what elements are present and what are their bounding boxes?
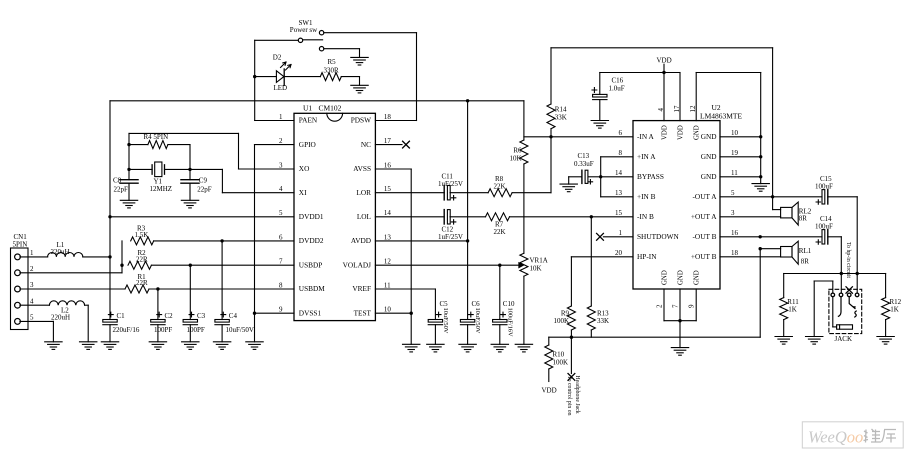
svg-text:AVSS: AVSS [353,164,371,173]
label CN1 5PIN [13,233,28,248]
svg-text:GPIO: GPIO [299,140,316,149]
annotation To hp-in circuit (rotated) [845,242,851,278]
wire L2 to ground [85,305,89,342]
wire +INA/BYPASS/+INB bracket [599,157,633,197]
svg-text:CM102: CM102 [319,104,342,113]
ground VR1A [515,344,532,352]
svg-text:14: 14 [384,209,392,217]
svg-text:VOLADJ: VOLADJ [343,260,372,269]
svg-text:10uF/50V: 10uF/50V [474,308,481,334]
svg-text:22K: 22K [494,183,506,191]
ground R5 [351,85,368,93]
svg-text:3: 3 [30,281,34,289]
svg-text:220uH: 220uH [51,248,70,256]
svg-text:DVSS1: DVSS1 [299,308,322,317]
ground C16 [591,121,608,129]
switch SW1 Power sw [290,19,324,51]
svg-text:GND: GND [701,132,717,141]
svg-text:R9: R9 [561,309,570,317]
svg-text:To hp-in circuit: To hp-in circuit [845,242,851,278]
ground R11 [775,337,792,345]
U2 top pin names VDD VDD GND (rotated) [662,125,701,140]
capacitor C14 100uF [815,215,833,244]
U2 left pin numbers [615,129,623,257]
svg-text:22pF: 22pF [197,186,212,194]
capacitor C3 100PF [183,265,206,342]
wire XO top path [127,133,294,169]
wire SW1 lower contact to ground [324,49,360,58]
ground C6 [459,344,476,352]
pin 17 NC stub with X [375,141,409,148]
wire C15 to jack [828,197,859,293]
svg-text:15: 15 [384,185,392,193]
resistor R11 1K [780,274,800,337]
svg-text:R6: R6 [513,147,522,155]
wire CN1 pin5 to ground [20,321,54,341]
resistor R7 22K [486,213,510,236]
wire R3 to DVDD2 [154,239,294,242]
svg-text:VDD: VDD [657,57,672,65]
svg-text:R5: R5 [328,58,337,66]
svg-text:LED: LED [274,84,288,92]
svg-text:GND: GND [662,270,669,285]
VDD symbol R10 [542,387,557,395]
capacitor C11 1uF/25V [438,173,463,200]
svg-text:16: 16 [384,161,392,169]
svg-text:17: 17 [384,137,392,145]
svg-text:XI: XI [299,188,307,197]
watermark WeeQoo [802,422,903,448]
svg-text:5: 5 [30,314,34,322]
resistor R14 33K [547,48,567,139]
wire VOLADJ to VR1A wiper [375,263,523,268]
svg-text:VDD: VDD [662,125,669,140]
svg-text:220uH: 220uH [51,314,70,322]
potentiometer VR1A 10K [520,164,548,344]
svg-text:12MHZ: 12MHZ [150,185,173,193]
svg-text:8: 8 [619,149,623,157]
wire R8 up to -INA node [512,137,551,193]
svg-text:10: 10 [731,129,739,137]
capacitor C13 0.33uF [569,152,601,184]
wire CN1 pin3 to R1 [20,288,125,290]
svg-text:C2: C2 [165,312,174,320]
svg-text:20: 20 [615,249,623,257]
svg-text:11: 11 [731,169,738,177]
svg-text:5: 5 [279,209,283,217]
capacitor C12 1uF/25V [438,210,463,242]
U1 left pin names [299,116,325,318]
svg-text:LOR: LOR [356,188,371,197]
resistor R13 33K [587,217,609,337]
svg-text:LM4863MTE: LM4863MTE [700,111,743,120]
svg-text:5PIN: 5PIN [13,240,28,248]
ground CN1 pin5 [45,342,62,350]
ground DVSS1 [246,342,263,350]
svg-text:100uF: 100uF [815,183,833,191]
svg-text:To control pin on: To control pin on [566,376,572,416]
svg-text:DVDD2: DVDD2 [299,236,324,245]
wire GPIO down to DVSS1 and ground [253,145,294,342]
VDD symbol [657,57,672,73]
resistor R10 100K pull-up [545,337,572,381]
connector CN1 5PIN [11,248,29,330]
power rail VDD to pins 4 17 [600,71,680,121]
svg-text:XO: XO [299,164,310,173]
ground C10 [491,344,508,352]
svg-text:TEST: TEST [354,308,372,317]
svg-text:8R: 8R [801,257,810,265]
svg-text:100uF/16V: 100uF/16V [506,308,513,338]
svg-text:D2: D2 [273,54,282,62]
svg-text:1.0uF: 1.0uF [609,84,625,92]
wire SW1 top contact to PDSW [324,33,417,121]
svg-text:330R: 330R [324,66,340,74]
svg-text:220uF/16: 220uF/16 [113,326,140,334]
pin 1 SHUTDOWN stub with X [597,233,633,240]
resistor R12 1K [882,274,902,337]
wire AVDD to C6 [375,239,469,242]
wire DVDD1 to 5V rail [110,216,294,218]
svg-text:7: 7 [672,304,680,308]
wire -INA net [524,136,633,138]
wire LOR to C11 [375,192,444,194]
capacitor C2 100PF [151,289,173,342]
svg-text:C1: C1 [117,312,126,320]
U2 left pin names [637,132,679,261]
resistor R2 22R [128,249,151,269]
svg-text:6: 6 [279,233,283,241]
wire CN1 pin1 to L1 [20,256,48,258]
headphone jack JACK [829,287,862,343]
svg-text:0.33uF: 0.33uF [574,160,594,168]
wire SW1 pole to PAEN/LED [253,40,298,120]
ground rail pins 12 and 10/19/11 [696,73,762,184]
crystal Y1 12MHZ [127,145,191,193]
svg-text:8: 8 [279,281,283,289]
svg-text:3: 3 [731,209,735,217]
svg-text:16: 16 [731,229,739,237]
svg-text:1: 1 [619,229,623,237]
U1 right pin names [343,116,372,318]
op-amp U2 LM4863MTE [633,103,743,289]
resistor R9 100K [553,306,575,339]
U1 left pin numbers [279,113,283,314]
wire C11 to R8 [450,192,488,194]
wire jack sleeve to ground [814,281,833,337]
svg-text:2: 2 [30,265,34,273]
svg-text:7: 7 [279,258,283,266]
svg-text:4: 4 [279,185,283,193]
svg-text:RL1: RL1 [799,247,812,255]
U2 right pin numbers [731,129,739,257]
svg-text:R4 5PIN: R4 5PIN [144,133,169,141]
capacitor C10 100uF/16V [493,265,515,344]
svg-text:NC: NC [361,140,371,149]
resistor R5 330R [320,58,341,81]
svg-text:R10: R10 [553,351,565,359]
svg-text:11: 11 [384,281,391,289]
wire LOL to C12 [375,216,444,218]
wire CN1 pin2 to R2/R3 node [20,241,124,273]
svg-text:PAEN: PAEN [299,116,318,125]
svg-text:10uF/50V: 10uF/50V [226,326,254,334]
U2 bottom pin numbers 2 7 9 (rotated) [656,304,696,308]
svg-text:15: 15 [615,209,623,217]
svg-text:-IN B: -IN B [637,212,654,221]
svg-text:4: 4 [30,297,34,305]
svg-text:R13: R13 [597,309,609,317]
svg-text:19: 19 [731,149,739,157]
svg-text:GND: GND [694,270,701,285]
svg-text:10: 10 [384,306,392,314]
svg-text:22R: 22R [136,255,148,263]
wire load rail [784,273,886,275]
op-amp U1 CM102 [294,104,375,321]
svg-text:100PF: 100PF [154,326,172,334]
svg-text:LOL: LOL [357,212,372,221]
svg-text:33K: 33K [555,114,567,122]
svg-text:R14: R14 [555,105,567,113]
svg-text:22pF: 22pF [114,186,129,194]
capacitor C16 1.0uF [592,73,625,121]
svg-text:HP-IN: HP-IN [637,252,657,261]
svg-text:VREF: VREF [352,284,371,293]
U2 top pin numbers 4 17 12 (rotated) [657,105,697,113]
capacitor C9 22pF [181,169,212,200]
resistor R8 22K [488,175,512,197]
wire U2 bottom GND pins to ground [664,289,696,348]
capacitor C4 10uF/50V [215,241,254,342]
svg-text:GND: GND [678,270,685,285]
capacitor C8 22pF [113,169,138,200]
svg-text:100K: 100K [553,317,569,325]
svg-text:22R: 22R [136,279,148,287]
wire top feedback rail [551,48,774,210]
svg-text:SHUTDOWN: SHUTDOWN [637,232,679,241]
resistor R1 22R [125,273,149,293]
svg-text:+OUT A: +OUT A [691,212,717,221]
inductor L2 [49,301,84,322]
svg-text:1: 1 [30,249,34,257]
svg-text:VDD: VDD [678,125,685,140]
svg-text:Power sw: Power sw [290,26,318,34]
svg-text:PDSW: PDSW [351,116,371,125]
wire LED to R5 [284,76,320,78]
wire L1 to C1 node [83,255,112,258]
svg-text:12: 12 [384,258,392,266]
svg-text:14: 14 [615,169,623,177]
svg-text:10K: 10K [509,154,521,162]
wire headphone-jack control stub with X [566,337,580,415]
U2 right pin names [691,132,717,261]
wire -INB stub [591,216,633,218]
svg-text:9: 9 [279,306,283,314]
svg-text:100uF: 100uF [815,223,833,231]
ground U2 [671,348,688,356]
svg-text:U1: U1 [303,104,312,113]
wire bottom feedback to -OUTB [571,235,762,337]
wire R5 to ground [341,77,359,86]
wire R7 to -INB node [510,215,594,218]
capacitor C1 220uF/16 [103,312,140,342]
svg-text:+OUT B: +OUT B [691,252,717,261]
svg-text:AVDD: AVDD [351,236,371,245]
svg-text:GND: GND [701,152,717,161]
svg-text:-IN A: -IN A [637,132,655,141]
svg-text:13: 13 [384,233,392,241]
svg-text:-OUT A: -OUT A [693,192,718,201]
svg-text:C16: C16 [612,76,624,84]
ground C9 [181,200,198,208]
ground C8 [120,200,137,208]
svg-text:5: 5 [731,189,735,197]
svg-text:BYPASS: BYPASS [637,172,664,181]
wire R4 right to crystal right node [168,145,190,170]
svg-text:+IN B: +IN B [637,192,656,201]
svg-text:VDD: VDD [542,387,557,395]
inductor L1 [48,241,83,257]
resistor R3 1.5K [131,225,154,245]
svg-text:+IN A: +IN A [637,152,656,161]
svg-text:-OUT B: -OUT B [693,232,717,241]
U2 bottom pin names GND GND GND (rotated) [662,270,701,285]
capacitor C6 10uF/50V [460,101,481,344]
svg-text:GND: GND [694,125,701,140]
wire HP-IN to R9 [571,257,633,306]
ground C4 [213,342,230,350]
svg-text:1K: 1K [890,305,899,313]
ground L2 [80,342,97,350]
svg-text:100K: 100K [553,358,569,366]
svg-text:1K: 1K [788,305,797,313]
ground SW1 [351,57,368,65]
wire CN1 pin4 to L2 [20,304,50,306]
wire -OUTB to C14 [720,236,822,238]
svg-text:C3: C3 [197,312,206,320]
svg-text:USBDM: USBDM [299,284,325,293]
U1 right pin numbers [384,113,392,314]
wire C12 to R7 [450,216,486,218]
svg-text:1uF/25V: 1uF/25V [438,233,463,241]
svg-text:10K: 10K [530,265,542,273]
wire 5V rail vertical and top rail to volume network [108,99,524,319]
svg-text:18: 18 [731,249,739,257]
svg-text:C9: C9 [199,177,208,185]
speaker RL1 8R [720,241,812,265]
wire C14 to jack [828,237,843,293]
svg-text:C8: C8 [113,177,122,185]
wire R1 to USBDM [149,287,294,290]
svg-text:1: 1 [279,113,283,121]
svg-text:GND: GND [701,172,717,181]
svg-text:1uF/25V: 1uF/25V [438,180,463,188]
svg-text:C4: C4 [229,312,238,320]
svg-text:33K: 33K [597,317,609,325]
ground C5 [427,344,444,352]
svg-text:10uF/50V: 10uF/50V [442,308,449,334]
ground C3 [182,342,199,350]
LED D2 [255,54,291,92]
svg-text:8R: 8R [799,215,808,223]
svg-text:JACK: JACK [835,335,853,343]
resistor R6 10K [509,101,527,164]
svg-text:2: 2 [279,137,283,145]
ground C2 [149,342,166,350]
speaker RL2 8R [720,202,812,225]
ground AVSS/TEST [403,344,420,352]
ground C13 [560,184,577,192]
svg-text:100PF: 100PF [187,326,205,334]
ground C1 [101,342,118,350]
wire VREF to C5 [375,289,435,320]
svg-text:USBDP: USBDP [299,260,323,269]
svg-text:1.5K: 1.5K [135,231,149,239]
svg-text:WeeQoo: WeeQoo [808,428,863,447]
svg-text:6: 6 [619,129,623,137]
svg-text:2: 2 [656,304,664,308]
svg-text:22K: 22K [494,228,506,236]
capacitor C15 100uF [815,175,833,204]
svg-text:13: 13 [615,189,623,197]
ground jack [806,337,823,345]
svg-text:Headphone Jack: Headphone Jack [574,376,580,414]
svg-text:VR1A: VR1A [530,256,548,264]
svg-text:3: 3 [279,161,283,169]
svg-text:9: 9 [688,304,696,308]
CN1 pin numbers 1-5 [30,249,34,322]
ground U2 GND pins [752,184,769,192]
resistor R4 5PIN [129,133,168,149]
svg-text:18: 18 [384,113,392,121]
wire crystal right to XI [190,169,294,192]
wire R2 to USBDP [151,264,294,267]
svg-text:DVDD1: DVDD1 [299,212,324,221]
capacitor C5 10uF/50V [428,300,449,345]
ground R12 [877,337,894,345]
svg-text:C13: C13 [578,152,590,160]
wire -OUTA to C15 [720,196,822,198]
wire AVSS to ground vertical [375,169,413,344]
